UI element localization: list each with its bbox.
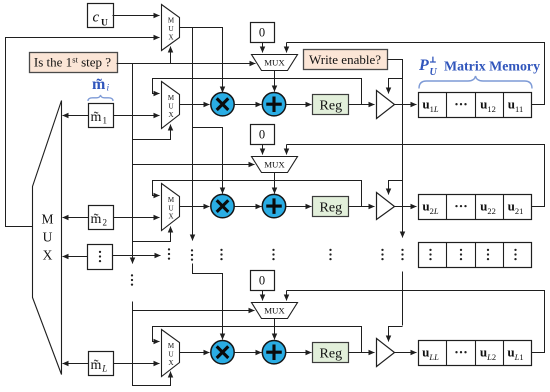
svg-text:M: M	[168, 342, 175, 350]
multiplier row 1	[211, 93, 234, 116]
register Reg row 2	[313, 197, 349, 217]
wire write-enable vertical distribution	[388, 60, 403, 238]
register m1 (input vector element)	[89, 104, 114, 128]
svg-text:M: M	[41, 212, 53, 227]
svg-text:Reg: Reg	[320, 346, 343, 361]
register Reg row L	[313, 343, 349, 363]
wire multiplier to adder row 2	[235, 206, 262, 208]
dots column buffer	[381, 249, 383, 261]
adder row 2	[262, 194, 285, 217]
wire buffer to memory row 2	[395, 206, 417, 208]
box: Write enable?	[304, 50, 388, 70]
svg-text:M: M	[168, 94, 175, 102]
wire buffer to memory row L	[395, 352, 417, 354]
wire top MUX output to row 1 multiplier	[180, 28, 223, 93]
wire adder to Reg row 2	[286, 206, 312, 208]
dots column 1st-step line	[131, 274, 133, 286]
wire memory feedback into small MUX row L	[286, 291, 288, 301]
wire MUX2 output to multiplier	[180, 206, 210, 208]
brace under m_i label	[88, 95, 113, 101]
constant 0 box row 2	[251, 125, 275, 145]
wire 1st-step resume to row L	[133, 302, 171, 386]
svg-text:U: U	[169, 351, 174, 359]
svg-text:MUX: MUX	[264, 58, 285, 68]
multiplier row 2	[211, 194, 234, 217]
dots column select	[168, 248, 170, 260]
wire small MUX to adder row 2	[274, 173, 276, 194]
wire write-enable to buffer row L	[389, 327, 403, 342]
memory row 2 cells	[419, 195, 532, 220]
wire m2 to big left MUX	[63, 217, 89, 219]
register c_U box	[88, 4, 114, 28]
wire small MUX to adder row L	[274, 319, 276, 340]
svg-text:2: 2	[103, 218, 108, 228]
constant 0 box row 1	[251, 23, 275, 43]
brace under Matrix Memory label	[419, 76, 532, 89]
box: Is the 1st step ?	[30, 53, 118, 73]
wire 1st-step select into small MUX row L	[133, 310, 255, 312]
wire m1 to big left MUX	[63, 115, 89, 117]
register mL (input vector element)	[89, 352, 114, 376]
register m2 (input vector element)	[89, 206, 114, 230]
dots column Reg	[329, 249, 331, 261]
wire 0 to small MUX row 2	[262, 145, 264, 155]
register m dots box	[88, 245, 113, 270]
wire select for MUX2 from 1st-step line	[133, 227, 171, 242]
svg-text:U: U	[43, 230, 53, 245]
wire mL to row MUXL input 2	[114, 363, 160, 365]
wire Reg to buffer row 1	[349, 104, 375, 106]
mux U1 (row 1 input select)	[162, 82, 180, 129]
svg-text:c: c	[93, 10, 100, 26]
multiplier row L	[211, 341, 234, 364]
wire write-enable to buffer row 2	[389, 181, 403, 195]
wire 0 to small MUX row 1	[262, 43, 264, 53]
wire 0 to small MUX row L	[262, 291, 264, 301]
svg-text:MUX: MUX	[264, 160, 285, 170]
svg-text:U: U	[101, 19, 108, 29]
svg-text:0: 0	[259, 128, 265, 142]
constant 0 box row L	[251, 271, 275, 291]
wire memory row 2 output feedback loop	[287, 145, 545, 207]
wire Reg1 feedback to MUX1 input 1	[153, 79, 362, 105]
mux UL (row L input select)	[162, 330, 180, 377]
wire m-dots to big left MUX	[63, 256, 88, 258]
wire m2 to row MUX2 input 2	[114, 217, 160, 219]
svg-text:U: U	[169, 103, 174, 111]
wire distribution to row L multiplier	[193, 264, 223, 340]
tri-state buffer row L	[377, 339, 395, 367]
svg-text:X: X	[169, 359, 174, 367]
wire big MUX output loop to top MUX input 2	[6, 38, 160, 227]
wire memory row 1 output feedback loop	[287, 43, 545, 105]
svg-text:m̃: m̃	[91, 358, 102, 373]
memory row 1 cells	[419, 93, 532, 118]
dots column multiplier	[220, 249, 222, 261]
wire multiplier to adder row 1	[235, 104, 262, 106]
wire Reg to buffer row L	[349, 352, 375, 354]
wire m1 to row MUX1 input 2	[114, 115, 160, 117]
svg-text:P: P	[418, 57, 429, 74]
wire MUX1 output to multiplier	[180, 104, 210, 106]
svg-text:X: X	[169, 213, 174, 221]
wire adder to Reg row 1	[286, 104, 312, 106]
svg-text:Write enable?: Write enable?	[309, 52, 381, 67]
register Reg row 1	[313, 95, 349, 115]
svg-text:L: L	[101, 364, 107, 374]
mux U2 (row 2 input select)	[162, 184, 180, 231]
wire MUXL output to multiplier	[180, 352, 210, 354]
wire write-enable to buffer row 1	[389, 79, 403, 94]
wire 1st-step select into small MUX row 2	[133, 164, 255, 166]
mux M1 (accumulator seed select)	[252, 55, 298, 71]
svg-text:0: 0	[259, 26, 265, 40]
memory row L cells	[419, 341, 532, 366]
wire c_U to top MUX input 1	[113, 15, 160, 17]
wire memory feedback into small MUX row 2	[286, 145, 288, 155]
svg-text:m̃: m̃	[91, 110, 102, 125]
svg-text:Reg: Reg	[320, 200, 343, 215]
dots column adder	[272, 249, 274, 261]
mux U0 (top update select)	[162, 5, 180, 51]
svg-text:X: X	[169, 111, 174, 119]
svg-text:Matrix Memory: Matrix Memory	[444, 60, 540, 75]
svg-text:M: M	[168, 17, 175, 25]
wire 1st-step vertical distribution	[132, 64, 134, 264]
wire mL to big left MUX	[63, 363, 89, 365]
svg-text:1: 1	[103, 116, 108, 126]
wire adder to Reg row L	[286, 352, 312, 354]
svg-text:Reg: Reg	[320, 98, 343, 113]
wire memory feedback into small MUX row 1	[286, 43, 288, 53]
svg-text:M: M	[168, 196, 175, 204]
svg-text:U: U	[169, 204, 174, 212]
wire buffer to memory row 1	[395, 104, 417, 106]
memory dots row cells	[419, 243, 532, 268]
wire small MUX to adder row 1	[274, 71, 276, 92]
wire multiplier to adder row L	[235, 352, 262, 354]
wire Reg2 feedback to MUX2 input 1	[153, 181, 362, 207]
svg-text:m̃: m̃	[92, 76, 106, 93]
mux big left (row readout select)	[33, 101, 62, 375]
mux ML (accumulator seed select)	[252, 303, 298, 319]
tri-state buffer row 2	[377, 193, 395, 220]
wire 1st-step select into small MUX row 1	[117, 63, 256, 65]
wire memory row L output feedback loop	[287, 291, 545, 353]
wire select for MUX1 from 1st-step line	[133, 125, 171, 140]
mux M2 (accumulator seed select)	[252, 157, 298, 173]
wire RegL feedback to MUXL input 1	[153, 327, 362, 353]
wire top MUX output branch down distribution	[192, 28, 194, 241]
wire m-dots continuation right	[113, 255, 161, 257]
wire write-enable resume to row L	[402, 272, 404, 326]
wire distribution to row 2 multiplier	[193, 128, 223, 194]
svg-text:0: 0	[259, 274, 265, 288]
svg-text:X: X	[169, 33, 174, 41]
dots column distribution	[191, 249, 193, 261]
svg-text:U: U	[169, 25, 174, 33]
svg-text:m̃: m̃	[91, 212, 102, 227]
dots column write-enable	[401, 249, 403, 261]
wire Reg to buffer row 2	[349, 206, 375, 208]
wire select for top MUX from 1st-step line	[170, 47, 172, 64]
svg-text:i: i	[107, 84, 110, 94]
adder row 1	[262, 93, 285, 116]
adder row L	[262, 341, 285, 364]
svg-text:MUX: MUX	[264, 306, 285, 316]
svg-text:U: U	[430, 67, 438, 78]
tri-state buffer row 1	[377, 91, 395, 119]
svg-text:X: X	[43, 248, 53, 263]
